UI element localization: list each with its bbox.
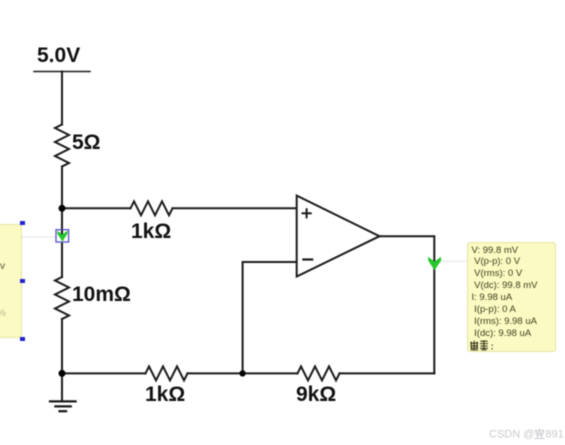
resistor R5 9k zigzag bbox=[298, 366, 340, 380]
label resistor R2 value 1k ohm bbox=[131, 220, 171, 244]
watermark CSDN bbox=[489, 428, 564, 441]
node C junction dot bbox=[239, 370, 245, 376]
feedback wire node C to op-amp minus input bbox=[243, 262, 297, 373]
resistor R4 1k zigzag bbox=[146, 366, 188, 380]
wire VCC bar to resistor R1 bbox=[61, 72, 63, 125]
selection handle blue dot middle bbox=[20, 279, 25, 284]
wire node B to resistor R4 bbox=[62, 372, 146, 374]
label resistor R5 value 9k ohm bbox=[296, 383, 336, 407]
current probe marker green box on wire bbox=[56, 230, 69, 242]
label resistor R3 value 10m ohm bbox=[72, 283, 131, 307]
selection handle blue dot bottom bbox=[20, 337, 25, 342]
probe readout yellow box left (cut off at edge) bbox=[0, 224, 22, 338]
wire R3 to node B bbox=[61, 319, 63, 373]
power supply VCC bar bbox=[34, 71, 90, 73]
node A junction dot bbox=[59, 205, 66, 212]
resistor R1 5ohm zigzag bbox=[55, 125, 69, 167]
wire node A down to resistor R3 bbox=[61, 208, 63, 277]
resistor R3 10m zigzag bbox=[55, 277, 69, 319]
node B junction dot bbox=[59, 370, 66, 377]
op-amp U1 triangle bbox=[297, 196, 380, 277]
left probe box text fragment V bbox=[0, 261, 5, 272]
ground symbol bars bbox=[49, 401, 77, 411]
wire node C to resistor R5 bbox=[243, 372, 298, 374]
wire op-amp output to corner and down bbox=[380, 236, 435, 373]
label resistor R1 value 5 ohm bbox=[72, 131, 101, 155]
voltage probe green arrow on output wire bbox=[428, 257, 441, 271]
label resistor R4 value 1k ohm bbox=[145, 383, 185, 407]
left probe box text fragment lower bbox=[0, 308, 6, 319]
wire R5 to output corner bbox=[340, 372, 435, 374]
selection handle blue dot top bbox=[20, 221, 25, 226]
wire R4 to node C bbox=[188, 372, 243, 374]
wire R2 to op-amp plus input bbox=[173, 207, 297, 209]
label 5.0V supply voltage bbox=[37, 44, 80, 68]
wire R1 to node A bbox=[61, 167, 63, 209]
probe pointer faint line left bbox=[20, 236, 55, 238]
ground lead wire bbox=[61, 373, 63, 400]
probe readout yellow box right bbox=[467, 242, 556, 352]
resistor R2 1k zigzag bbox=[131, 201, 173, 215]
wire node A to resistor R2 bbox=[62, 207, 131, 209]
probe pointer faint line right bbox=[440, 261, 467, 263]
